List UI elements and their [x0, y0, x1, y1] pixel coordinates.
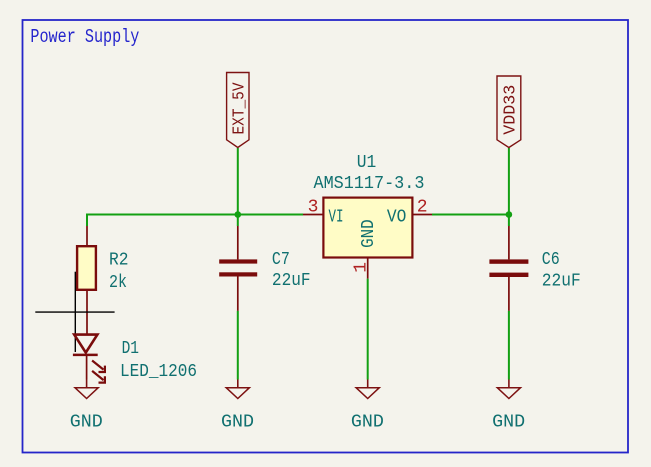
graphic line vertical (black) — [74, 272, 76, 352]
capacitor C7 — [219, 226, 257, 311]
svg-text:GND: GND — [351, 411, 384, 432]
svg-text:2: 2 — [417, 198, 428, 218]
wire: junction to C7 — [237, 215, 239, 227]
svg-text:3: 3 — [308, 198, 319, 218]
ground symbol under D1 — [70, 380, 103, 433]
svg-text:C7: C7 — [272, 249, 290, 270]
svg-text:VDD33: VDD33 — [501, 85, 520, 135]
ground symbol under C7 — [221, 380, 254, 433]
power flag EXT_5V — [227, 73, 249, 148]
svg-text:2k: 2k — [109, 272, 127, 293]
svg-text:GND: GND — [492, 411, 525, 432]
ground symbol under C6 — [492, 380, 525, 433]
svg-text:22uF: 22uF — [272, 270, 311, 291]
wire: U1 GND pin to GND — [367, 279, 369, 380]
resistor R2 — [77, 226, 96, 334]
LED D1 — [73, 335, 105, 383]
svg-text:LED_1206: LED_1206 — [120, 361, 197, 382]
wire: VDD33 flag drop — [508, 148, 510, 215]
svg-text:D1: D1 — [122, 338, 139, 359]
svg-text:GND: GND — [358, 219, 379, 248]
svg-text:U1: U1 — [357, 152, 377, 173]
op-amp U1 AMS1117-3.3 body — [323, 198, 412, 258]
svg-text:EXT_5V: EXT_5V — [229, 82, 248, 134]
wire: EXT_5V flag drop — [237, 148, 239, 215]
wire: main horizontal net EXT_5V y=214.5 — [87, 215, 303, 227]
svg-text:GND: GND — [221, 411, 254, 432]
wire: C7 to GND — [237, 311, 239, 380]
capacitor C6 — [489, 226, 528, 311]
U1 pin 1 GND — [351, 219, 379, 278]
wire: VO to VDD junction — [432, 214, 509, 216]
junction at EXT_5V/C7 node — [235, 211, 242, 218]
svg-text:22uF: 22uF — [542, 270, 581, 291]
svg-text:AMS1117-3.3: AMS1117-3.3 — [314, 173, 425, 194]
power flag VDD33 — [497, 76, 521, 148]
svg-text:R2: R2 — [109, 249, 129, 270]
graphic line horizontal (black) — [35, 311, 114, 313]
svg-text:VI: VI — [329, 206, 344, 227]
wire: C6 to GND — [508, 311, 510, 380]
svg-text:VO: VO — [387, 206, 407, 227]
svg-text:Power Supply: Power Supply — [30, 26, 139, 48]
junction at VDD33/C6 node — [506, 211, 513, 218]
U1 pin 2 VO — [387, 198, 432, 228]
svg-text:GND: GND — [70, 411, 103, 432]
U1 pin 3 VI — [303, 198, 344, 228]
wire: junction to C6 — [508, 215, 510, 227]
ground symbol under U1 — [351, 380, 384, 433]
svg-text:1: 1 — [351, 262, 371, 273]
svg-text:C6: C6 — [542, 249, 560, 270]
